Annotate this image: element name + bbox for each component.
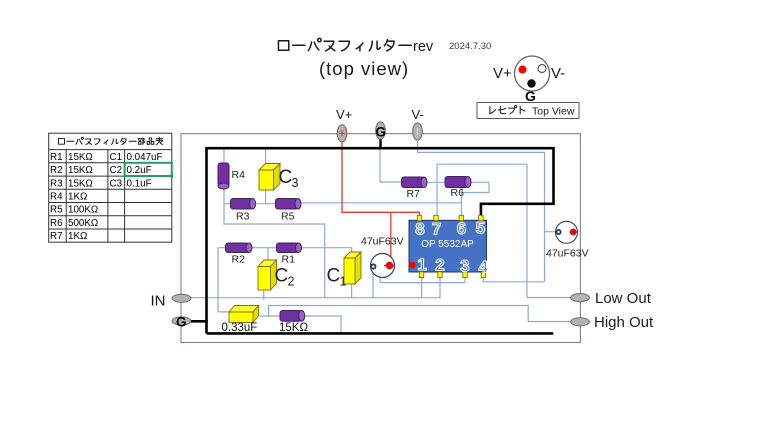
svg-text:R3: R3 xyxy=(236,211,250,223)
svg-text:5: 5 xyxy=(476,219,485,238)
svg-text:V-: V- xyxy=(551,65,565,82)
svg-text:C2: C2 xyxy=(110,165,123,176)
svg-text:2024.7.30: 2024.7.30 xyxy=(449,41,491,52)
svg-text:15KΩ: 15KΩ xyxy=(68,178,93,189)
svg-text:6: 6 xyxy=(457,219,466,238)
svg-text:Top View: Top View xyxy=(532,106,575,118)
svg-text:7: 7 xyxy=(432,220,441,239)
svg-text:47uF63V: 47uF63V xyxy=(546,248,589,260)
svg-text:0.2uF: 0.2uF xyxy=(127,165,152,176)
svg-text:(top view): (top view) xyxy=(319,58,409,79)
svg-text:8: 8 xyxy=(415,220,424,239)
svg-text:1: 1 xyxy=(417,255,426,274)
svg-text:R4: R4 xyxy=(232,169,246,181)
svg-text:G: G xyxy=(176,315,187,330)
svg-text:500KΩ: 500KΩ xyxy=(68,218,98,229)
svg-text:G: G xyxy=(525,88,536,104)
svg-text:1: 1 xyxy=(340,274,347,288)
svg-text:C: C xyxy=(275,266,289,287)
svg-text:High Out: High Out xyxy=(594,314,654,331)
svg-text:1KΩ: 1KΩ xyxy=(68,192,87,203)
svg-text:R7: R7 xyxy=(407,188,421,200)
svg-text:R2: R2 xyxy=(50,165,63,176)
svg-text:0.33uF: 0.33uF xyxy=(222,322,258,334)
svg-text:R6: R6 xyxy=(50,218,63,229)
svg-text:IN: IN xyxy=(151,293,166,310)
svg-text:2: 2 xyxy=(435,256,444,275)
svg-text:0.1uF: 0.1uF xyxy=(127,178,152,189)
svg-text:C1: C1 xyxy=(110,152,123,163)
svg-text:R5: R5 xyxy=(50,205,63,216)
svg-text:1KΩ: 1KΩ xyxy=(68,231,87,242)
svg-text:V+: V+ xyxy=(336,107,352,122)
svg-text:2: 2 xyxy=(288,275,295,289)
svg-text:15KΩ: 15KΩ xyxy=(68,165,93,176)
svg-text:15KΩ: 15KΩ xyxy=(279,322,308,334)
svg-text:V-: V- xyxy=(412,107,424,122)
svg-text:rev: rev xyxy=(413,39,434,55)
svg-text:0.047uF: 0.047uF xyxy=(127,152,163,163)
svg-text:C3: C3 xyxy=(110,178,123,189)
svg-text:R1: R1 xyxy=(50,152,63,163)
svg-text:R3: R3 xyxy=(50,178,63,189)
svg-text:100KΩ: 100KΩ xyxy=(68,205,98,216)
svg-text:Low Out: Low Out xyxy=(595,290,652,307)
svg-text:R5: R5 xyxy=(281,211,295,223)
svg-text:OP 5532AP: OP 5532AP xyxy=(421,239,474,250)
svg-text:3: 3 xyxy=(292,176,299,190)
svg-text:47uF63V: 47uF63V xyxy=(361,236,404,248)
svg-text:R1: R1 xyxy=(282,253,296,265)
svg-text:R7: R7 xyxy=(50,231,63,242)
svg-text:R2: R2 xyxy=(232,253,246,265)
svg-text:15KΩ: 15KΩ xyxy=(68,152,93,163)
svg-text:C: C xyxy=(279,167,293,188)
svg-text:R6: R6 xyxy=(451,187,465,199)
svg-text:4: 4 xyxy=(479,258,489,277)
svg-text:R4: R4 xyxy=(50,192,63,203)
svg-text:C: C xyxy=(327,265,341,286)
svg-text:G: G xyxy=(376,125,387,140)
svg-text:3: 3 xyxy=(460,257,469,276)
svg-text:V+: V+ xyxy=(493,65,512,82)
